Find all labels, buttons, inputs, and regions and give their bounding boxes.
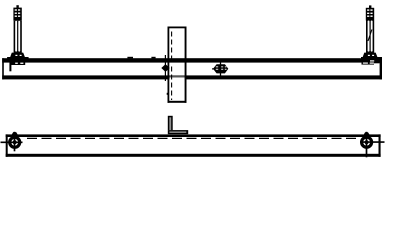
- left bolt threaded shaft: [14, 21, 22, 53]
- right bolt under-plate: [362, 62, 375, 64]
- right bolt coupling block: [366, 8, 374, 21]
- left eye hole ring: [1, 132, 23, 152]
- weld bump 2 left of plate: [151, 57, 155, 59]
- beam bottom edge: [2, 75, 382, 79]
- left ring top boss: [12, 132, 18, 135]
- lower view bar left edge: [6, 134, 8, 156]
- left bolt under-plate: [10, 62, 26, 65]
- left bolt flange: [7, 57, 29, 62]
- gusset plate bottom edge: [168, 101, 187, 103]
- beam right end edge: [380, 58, 382, 79]
- beam left end edge: [2, 58, 4, 79]
- beam top edge: [2, 58, 382, 62]
- left bolt top nub: [16, 5, 18, 8]
- gusset plate left nub: [166, 93, 169, 95]
- gusset plate left edge: [168, 27, 170, 103]
- right bolt top nub: [369, 5, 371, 8]
- weld bump left of plate: [127, 57, 133, 59]
- lower view bar top edge: [6, 134, 381, 137]
- beam bottom edge hidden portion behind gusset plate: [170, 75, 185, 79]
- gusset plate top edge: [168, 27, 187, 29]
- rivet diamond marker: [161, 55, 169, 81]
- right bolt thread runout mark: [368, 30, 372, 42]
- right ring top boss: [364, 132, 370, 135]
- left bolt nut: [10, 53, 25, 57]
- right pocket top line: [374, 61, 380, 64]
- lower view bar right edge: [379, 134, 381, 156]
- left bolt hook line: [9, 62, 11, 71]
- lower view bar bottom edge: [6, 154, 381, 157]
- left eye-bolt assembly: [7, 5, 29, 71]
- right eye-bolt assembly: [361, 5, 382, 64]
- lower view hidden centerline (dashed): [27, 137, 358, 139]
- gusset plate hidden line (dashed): [171, 32, 173, 63]
- gusset plate right edge: [185, 27, 187, 103]
- right bolt nut: [363, 53, 378, 57]
- center angle bracket foot: [168, 130, 188, 134]
- turnbuckle hex marker: [212, 60, 228, 78]
- right eye hole ring: [360, 132, 385, 158]
- left bolt coupling block: [13, 8, 21, 21]
- center angle bracket upright: [168, 116, 173, 130]
- right bolt threaded shaft: [366, 21, 374, 53]
- right bolt flange: [361, 57, 382, 62]
